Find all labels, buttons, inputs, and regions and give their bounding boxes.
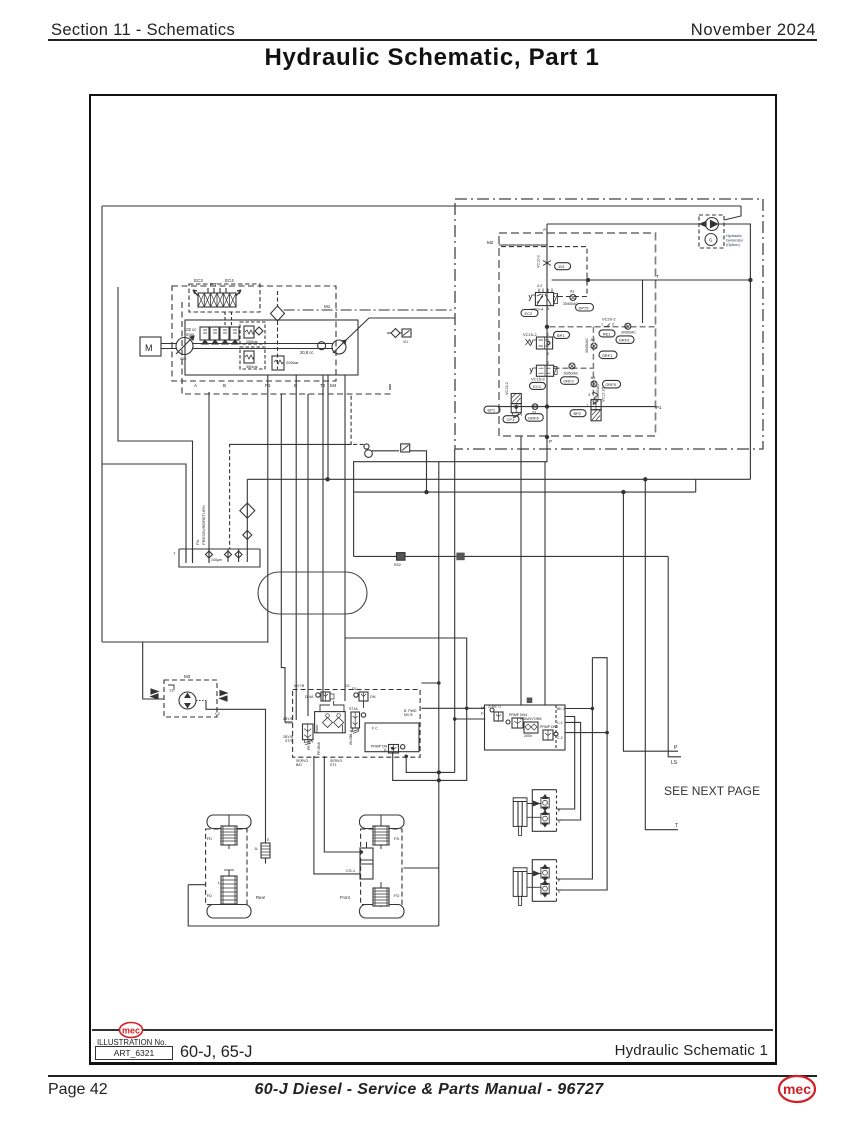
valve bank (200, 327, 239, 344)
shaft (161, 344, 177, 349)
wire diva links (320, 701, 364, 712)
pump block solid box (185, 320, 358, 375)
oval ORF5 (603, 380, 621, 388)
filter small diamond (243, 531, 252, 540)
oval ORF3 (616, 336, 634, 344)
wire VC20-2 drop (642, 280, 644, 323)
manifold dash-dot box (455, 199, 763, 449)
dashed pilot filter (277, 291, 279, 369)
wire generator feed (724, 206, 741, 220)
RS2 hatched box (394, 553, 405, 567)
brake valve 2 (540, 725, 558, 740)
wire top bus y=206 (102, 205, 741, 207)
sensor circle (318, 342, 326, 350)
hatched box RS3 (456, 553, 464, 561)
pump assembly outer dashed box (182, 302, 390, 394)
steer valve top2 (352, 687, 376, 701)
front axle (340, 815, 404, 918)
oval ORF2 (561, 377, 579, 385)
wire tank feed 2 (118, 287, 193, 563)
junction dots (325, 278, 752, 495)
wire pump to manifold diagonal (345, 318, 455, 341)
gauge circles (364, 444, 369, 449)
CS-1 cylinder (346, 842, 373, 879)
wire P LS T stubs labels (671, 745, 678, 829)
wire tank dashed pilot (230, 396, 366, 549)
wire front axle link (404, 867, 439, 869)
wire steer line to CS-1 bottom (314, 756, 361, 874)
manifold gray dashed box (499, 233, 656, 436)
stadium (258, 572, 367, 614)
wire brake feeds (557, 717, 575, 810)
valve VC20-2 (601, 317, 636, 335)
wire y=491.8 (354, 491, 696, 493)
front motor top (373, 815, 389, 849)
tank vertical text (195, 505, 206, 545)
rear axle (206, 815, 266, 918)
solenoid A3 (591, 376, 598, 387)
svg-text:mec: mec (122, 1026, 140, 1036)
svg-text:mec: mec (783, 1081, 811, 1097)
motor M1 box (140, 337, 161, 356)
wire manifold P line (498, 406, 656, 408)
steer valve top (305, 692, 334, 701)
filter diamond pump (271, 306, 285, 321)
directional valve EC hatched (193, 282, 241, 307)
tank (173, 549, 260, 567)
steer orbital box (315, 712, 346, 733)
bus verticals from pump ports (267, 375, 269, 642)
aux pump box M3 (151, 674, 227, 717)
gray dashed partition right (550, 327, 656, 407)
orifice box (401, 444, 410, 452)
solenoid S1 (532, 404, 538, 415)
mec logo small (title block) (120, 1023, 143, 1038)
relief valve 1 (240, 322, 265, 344)
relief valve 3 (272, 356, 299, 370)
brake prop valve (506, 713, 527, 728)
wire servo junction web (345, 449, 485, 780)
oval EC2 (521, 310, 538, 317)
valve VC12-2D (587, 386, 606, 420)
dash-dot boundary pump to manifold (284, 309, 455, 311)
wire steer line to CS-1 top (324, 756, 360, 852)
brake orbital (520, 717, 541, 738)
brake manifold box (481, 705, 565, 750)
hydraulic generator (699, 215, 724, 248)
wire T line (552, 279, 751, 281)
oval ORF6 (525, 414, 543, 422)
wire M2 (499, 244, 547, 246)
orifice box VU (402, 329, 411, 344)
rear motor top (221, 815, 237, 849)
wire filter drop (246, 479, 248, 549)
wire generator out right (718, 224, 750, 479)
wire T stub drop x=658.3 (668, 556, 681, 756)
pump P1 circle (176, 338, 193, 355)
oval DP75 (576, 304, 594, 312)
rear motor bottom (221, 870, 237, 905)
mec logo footer (779, 1076, 815, 1102)
wire brake manifold top feeds (521, 436, 545, 705)
wire bottom line (188, 885, 439, 926)
valve VC15-2 (523, 332, 553, 356)
EC dashed box (189, 284, 260, 312)
valve VC15-3 (530, 361, 579, 381)
oval 101 (555, 263, 571, 270)
manifold black dashed sub-box (501, 247, 587, 297)
oval BP1 (554, 331, 570, 338)
valve VCO-4 (529, 284, 558, 312)
oval EP1 (484, 406, 500, 413)
steer manifold dashed box (293, 690, 421, 758)
pump assembly dashed box (172, 286, 336, 381)
wire aux pump drop (143, 642, 164, 699)
pump P2 circle (332, 340, 346, 354)
wire P drop x=622.8 (623, 492, 678, 751)
relief valve 2 (240, 347, 265, 369)
front motor bottom (373, 882, 389, 907)
oval EC1 (530, 382, 546, 389)
steer valve right ST1A (349, 707, 366, 733)
wire tank feed 1 (102, 464, 186, 563)
oval BP2 (570, 410, 586, 417)
wire central valve stack x=547 (354, 224, 547, 556)
wire W2 y=479.3 (247, 478, 750, 480)
oval RE1 (599, 330, 615, 337)
wire RS2 line y=556.5 (354, 555, 669, 557)
steer labels (294, 684, 417, 767)
valve VC15-2L vertical (505, 382, 522, 418)
brake assembly 1 (513, 790, 561, 836)
oval CP1 (503, 416, 519, 423)
wire generator suction (547, 223, 704, 225)
port labels pump box (194, 383, 337, 388)
through shaft (193, 344, 333, 349)
wire LS drop x=645.3 (645, 479, 678, 829)
wire left drop x=102 (101, 206, 103, 642)
steer prop valve PRMP DN (371, 745, 405, 754)
steer valve BK left (283, 717, 313, 745)
solenoid A1b (591, 338, 598, 349)
wire tank line x=209 (208, 392, 210, 563)
wire gauge line y=447.5 (372, 451, 427, 492)
steer sub box (365, 723, 419, 752)
orifice star VC10-2 (537, 255, 552, 268)
brake assembly 2 (513, 860, 561, 906)
wire JL line (213, 709, 266, 863)
JL component (254, 838, 270, 858)
solenoid A1 (570, 290, 576, 301)
check diamond (255, 327, 263, 335)
brake valve 1 (488, 705, 503, 722)
oval ORF1 (599, 351, 617, 359)
wire aux pump supply y=642 (102, 641, 269, 643)
filter big diamond (240, 503, 255, 518)
wire main riser x=438.8 (438, 462, 440, 926)
check diamond VU (387, 329, 402, 338)
